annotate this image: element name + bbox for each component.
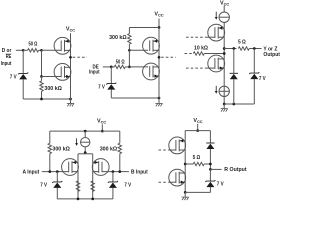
wire: 10k to output rail [204, 53, 224, 55]
wire: output rail through MOSFETs [223, 22, 225, 104]
svg-text:A Input: A Input [23, 169, 40, 175]
node: input junction [110, 66, 113, 69]
wire: gate bus vertical [128, 50, 130, 67]
zener diode D4 7V [249, 72, 259, 79]
zener diode 7V (input clamp) [18, 73, 28, 80]
svg-text:5 Ω: 5 Ω [193, 155, 201, 161]
junction: rail bottom [158, 97, 161, 100]
junction: 5ohm at output leg [209, 163, 212, 166]
node: Q9/Q10 midpoint [184, 163, 187, 166]
ground [182, 192, 189, 200]
wire: 300k to gate node [128, 44, 130, 50]
wire: VCC to current source [223, 6, 225, 12]
wire (dashed): gate drive of Q5 [186, 36, 205, 38]
wire: D6 anode to bottom rail [209, 187, 211, 192]
node: Q1/Q2 midpoint [69, 56, 72, 59]
wire: to R output [210, 168, 221, 170]
current direction arrow [75, 138, 78, 146]
p-channel MOSFET Q5 (high side) [208, 24, 225, 41]
junction: zener at B node [112, 170, 115, 173]
junction: VCC tee [158, 26, 161, 29]
wire: DE input lead [103, 66, 112, 68]
diode D3 (clamp to output) [230, 73, 238, 79]
svg-text:7 V: 7 V [98, 85, 105, 91]
wire: MOSFET rail [184, 131, 186, 193]
svg-text:50 Ω: 50 Ω [116, 59, 125, 65]
wire: zener down [110, 90, 112, 98]
node: output tap [223, 47, 226, 50]
svg-text:VCC: VCC [220, 0, 229, 6]
svg-text:Output: Output [263, 52, 280, 58]
zener diode D6 7V [205, 180, 215, 187]
svg-text:7 V: 7 V [10, 74, 17, 80]
current direction arrow [215, 86, 218, 94]
n-channel MOSFET Q2 (lower) [54, 64, 71, 81]
wire: 300k to A input node [49, 154, 51, 172]
wire: output to D4 cathode [253, 49, 255, 74]
svg-text:5 Ω: 5 Ω [238, 40, 246, 46]
wire: rail down to right 300k [119, 131, 121, 143]
wire: current source to split [84, 147, 86, 154]
node: gate bus top [40, 49, 43, 52]
wire: down to 300k [128, 28, 130, 34]
svg-text:Input: Input [1, 61, 12, 67]
wire 50ohm to gate node [39, 49, 42, 51]
resistor 300 kohm (pulldown) [40, 81, 43, 92]
svg-text:7 V: 7 V [217, 182, 224, 188]
wire: bottom rail to diodes [224, 103, 254, 105]
zener diode 7V (B clamp) [108, 181, 118, 188]
p-channel MOSFET Q3 (upper) [143, 37, 160, 54]
wire: into Q6 gate [205, 67, 215, 69]
wire: VCC rail through MOSFET pair [70, 33, 72, 99]
wire: B node to zener [112, 172, 114, 182]
resistor 300 kohm (pullup) [128, 34, 131, 44]
p-channel MOSFET Q1 (upper) [54, 37, 71, 54]
wire: split bar to both drains [78, 153, 93, 155]
junction: 300k at rail [40, 98, 43, 101]
resistor 300 kohm (A pullup) [48, 143, 51, 154]
svg-text:7 V: 7 V [40, 183, 47, 189]
wire to 50ohm [111, 66, 114, 68]
wire: bottom rail to zener leg [185, 191, 210, 193]
junction: VCC tee [101, 130, 104, 133]
n-channel MOSFET Q10 (low side) [169, 169, 186, 186]
node: lower gate tap [40, 75, 43, 78]
n-channel MOSFET Q8 (B input pair) [92, 159, 109, 176]
current source I2 [219, 86, 229, 96]
resistor (Q7 source degeneration) [76, 181, 79, 192]
wire to 50ohm [23, 49, 27, 51]
current source I1 [219, 12, 229, 22]
wire (dashed): gate drive of Q10 [159, 181, 169, 183]
n-channel MOSFET Q7 (A input pair) [62, 159, 79, 176]
junction: D3 anode at rail [232, 103, 235, 106]
wire: gate of upper MOSFET [42, 49, 62, 51]
junction: mosfet chain at rail [69, 98, 72, 101]
wire (dashed) to 10k [185, 53, 193, 55]
junction: split node [84, 151, 87, 154]
wire: bottom ground rail [23, 98, 70, 100]
node: 10k tap [223, 52, 226, 55]
wire: 5ohm to output [249, 48, 261, 50]
wire (dashed) to internal circuitry [73, 56, 87, 58]
junction: 300k at A node [48, 170, 51, 173]
resistor 5 ohm (series output) [238, 47, 249, 50]
wire: gate of upper MOSFET [129, 49, 148, 51]
wire: B input to gate [102, 171, 129, 173]
wire: node down to zener D1 [22, 50, 24, 73]
junction: rail bottom [184, 191, 187, 194]
zener diode 7V (input clamp) [106, 83, 116, 90]
wire: 300k to ground rail [41, 91, 43, 99]
resistor 10 kohm [193, 52, 204, 55]
svg-text:B Input: B Input [131, 169, 148, 175]
svg-text:VCC: VCC [97, 119, 106, 125]
wire: gate bus vertical [41, 50, 43, 76]
junction: right leg at rail [91, 198, 94, 201]
svg-text:RE: RE [6, 54, 12, 60]
diode D5 (clamp to VCC) [206, 143, 214, 149]
svg-text:300 kΩ: 300 kΩ [52, 146, 70, 152]
wire: into Q10 gate [169, 181, 176, 183]
wire: top rail down to D5 [209, 131, 211, 143]
wire: 300k to B input node [119, 154, 121, 172]
wire: D5 anode to output node [209, 149, 211, 169]
junction: left leg at rail [77, 198, 80, 201]
wire (dashed): gate drive of Q6 [186, 67, 205, 69]
node: 50ohm to gate bus [128, 66, 131, 69]
junction: VCC tee [196, 129, 199, 132]
zener diode 7V (A clamp) [52, 181, 62, 188]
junction: zener at A node [56, 170, 59, 173]
wire: gate of lower MOSFET [129, 66, 148, 68]
wire: top rail [185, 130, 210, 132]
wire: output to D3 cathode [233, 49, 235, 74]
resistor (Q8 source degeneration) [91, 181, 94, 192]
n-channel MOSFET Q4 (lower) [143, 63, 160, 80]
p-channel MOSFET Q9 (high side) [169, 137, 186, 154]
svg-text:7 V: 7 V [259, 76, 266, 82]
svg-text:VCC: VCC [66, 27, 75, 33]
wire 50ohm to gate bus [125, 66, 129, 68]
wire: into Q5 gate [205, 36, 215, 38]
n-channel MOSFET Q6 (low side) [208, 55, 225, 72]
junction: clamp diode D3 tap [232, 47, 235, 50]
wire: rail to current source [84, 131, 86, 138]
wire: output node to 5ohm [224, 48, 236, 50]
wire: into Q9 gate [169, 149, 176, 151]
wire: left drain/source rail [77, 154, 79, 199]
node: input junction [22, 49, 25, 52]
wire (dashed): gate drive of Q9 [159, 149, 169, 151]
wire: VCC rail through MOSFET pair [158, 28, 160, 99]
wire: input lead to node [16, 49, 23, 51]
resistor 50 ohm (series input) [28, 49, 39, 52]
node: R output tap [209, 168, 212, 171]
node: Q3/Q4 midpoint [158, 56, 161, 59]
junction: zener D4 tap [253, 47, 256, 50]
svg-text:10 kΩ: 10 kΩ [194, 46, 209, 52]
wire: rail down to left 300k [49, 131, 51, 143]
wire: VCC to top rail [101, 124, 103, 131]
svg-text:VCC: VCC [154, 12, 163, 18]
wire: VCC down to rail tee [158, 19, 160, 28]
svg-text:300 kΩ: 300 kΩ [44, 86, 62, 92]
svg-text:300 kΩ: 300 kΩ [109, 35, 127, 41]
wire: D3 anode to rail [233, 79, 235, 104]
ground [221, 104, 228, 112]
wire: 5ohm to output rail [204, 163, 210, 165]
wire: top bar to 300k [129, 27, 159, 29]
ground [155, 98, 162, 106]
wire: node down to zener [110, 67, 112, 84]
wire to 300k resistor [41, 77, 43, 81]
wire: A input to gate [42, 171, 69, 173]
junction: 300k at B node [118, 170, 121, 173]
svg-text:50 Ω: 50 Ω [29, 42, 38, 48]
current source I3 (tail) [81, 138, 90, 147]
ground [67, 99, 74, 106]
junction: rail bottom [223, 103, 226, 106]
wire: zener to bottom rail [56, 188, 58, 199]
wire: right drain/source rail [92, 154, 94, 199]
svg-text:R Output: R Output [224, 167, 246, 173]
wire: top rail [50, 130, 120, 132]
wire: gate of lower MOSFET [42, 76, 62, 78]
svg-text:Input: Input [89, 70, 100, 76]
resistor 300 kohm (B pullup) [118, 143, 121, 154]
svg-text:VCC: VCC [193, 118, 202, 124]
svg-text:7 V: 7 V [124, 183, 131, 189]
wire: output node to zener D6 [209, 169, 211, 181]
wire: D4 anode to rail [253, 79, 255, 104]
resistor 50 ohm (series input) [114, 65, 125, 68]
wire: bottom rail to ground [111, 97, 159, 99]
wire: mid node to 5ohm [185, 163, 193, 165]
resistor 5 ohm (series output) [193, 162, 204, 165]
wire (dashed) to internal circuitry [161, 56, 176, 58]
svg-text:300 kΩ: 300 kΩ [100, 146, 118, 152]
junction: current source at rail [84, 130, 87, 133]
wire: A node to zener [56, 172, 58, 182]
overline on RE (active low) [6, 53, 12, 55]
node: upper gate tap [128, 49, 131, 52]
wire: VCC to top rail [197, 124, 199, 131]
wire: bottom rail [57, 198, 113, 200]
current direction arrow [215, 12, 218, 20]
wire: zener to ground rail [22, 79, 24, 99]
wire: zener to bottom rail [112, 188, 114, 199]
